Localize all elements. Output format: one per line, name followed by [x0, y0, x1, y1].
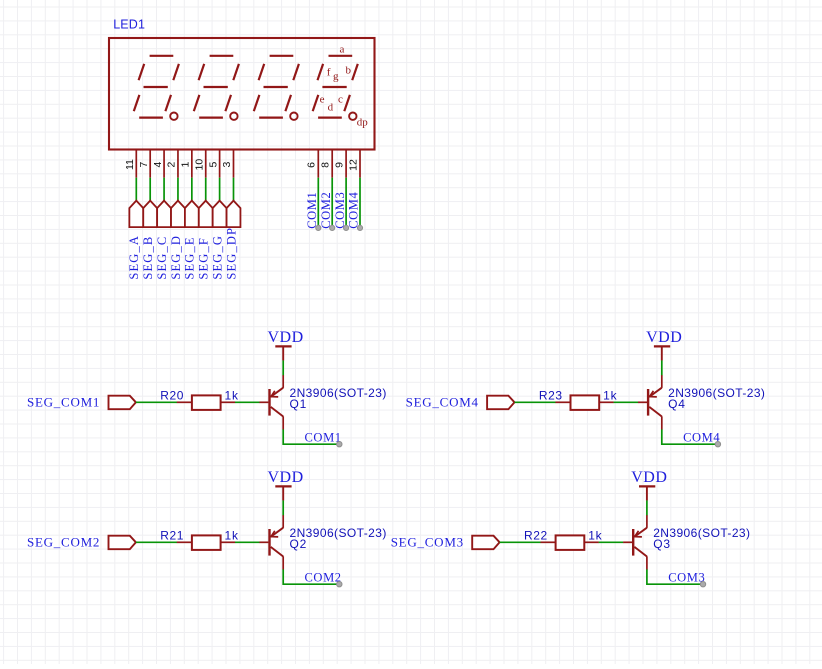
port SEG_B — [141, 201, 157, 280]
svg-text:1k: 1k — [225, 528, 239, 542]
junction dot — [715, 442, 720, 447]
svg-text:a: a — [339, 43, 344, 55]
pin 12 — [347, 149, 360, 177]
svg-text:COM4: COM4 — [683, 430, 720, 444]
svg-text:R21: R21 — [160, 528, 184, 542]
wire — [345, 178, 347, 228]
wire — [235, 541, 260, 543]
svg-text:8: 8 — [320, 162, 332, 168]
svg-text:f: f — [327, 67, 331, 79]
svg-text:g: g — [333, 71, 339, 83]
svg-text:c: c — [338, 94, 343, 106]
svg-text:SEG_F: SEG_F — [197, 237, 211, 280]
wire — [191, 178, 193, 201]
svg-text:SEG_DP: SEG_DP — [224, 227, 238, 280]
wire — [646, 500, 648, 515]
svg-text:COM2: COM2 — [319, 192, 333, 229]
pin 6 — [306, 149, 319, 177]
wire — [282, 500, 284, 515]
port SEG_DP — [224, 201, 240, 280]
pin 2 — [166, 149, 178, 177]
svg-text:dp: dp — [357, 117, 369, 129]
wire — [317, 178, 319, 228]
wire — [359, 178, 361, 228]
svg-text:1k: 1k — [225, 388, 239, 402]
transistor Q4 — [638, 375, 662, 430]
svg-text:SEG_COM4: SEG_COM4 — [406, 394, 479, 409]
wire — [135, 178, 137, 201]
junction dot — [316, 225, 321, 230]
wire — [235, 401, 260, 403]
svg-text:6: 6 — [306, 162, 318, 168]
wire — [283, 569, 339, 584]
svg-text:5: 5 — [207, 162, 219, 168]
svg-text:SEG_B: SEG_B — [141, 236, 155, 280]
wire — [205, 178, 207, 201]
port SEG_COM1 — [27, 394, 136, 409]
svg-text:SEG_D: SEG_D — [169, 235, 183, 280]
svg-text:2N3906(SOT-23): 2N3906(SOT-23) — [290, 386, 387, 400]
junction dot — [337, 442, 342, 447]
svg-text:e: e — [320, 94, 325, 106]
power VDD — [268, 469, 304, 501]
junction dot — [330, 225, 335, 230]
wire — [662, 429, 718, 444]
svg-text:1k: 1k — [588, 528, 602, 542]
svg-text:SEG_COM3: SEG_COM3 — [391, 534, 464, 549]
svg-text:2N3906(SOT-23): 2N3906(SOT-23) — [653, 526, 750, 540]
svg-text:COM1: COM1 — [305, 430, 342, 444]
wire — [661, 360, 663, 375]
wire — [515, 401, 556, 403]
svg-text:9: 9 — [334, 162, 346, 168]
transistor Q1 — [259, 375, 283, 430]
svg-text:R22: R22 — [524, 528, 548, 542]
port SEG_G — [210, 201, 226, 280]
pin 10 — [193, 149, 205, 177]
svg-text:10: 10 — [193, 159, 205, 171]
svg-text:SEG_E: SEG_E — [183, 236, 197, 279]
resistor R21 — [177, 535, 235, 550]
resistor R22 — [541, 535, 599, 550]
wire — [614, 401, 639, 403]
port SEG_COM4 — [406, 394, 515, 409]
svg-text:2N3906(SOT-23): 2N3906(SOT-23) — [290, 526, 387, 540]
svg-text:VDD: VDD — [631, 469, 667, 486]
svg-text:b: b — [346, 65, 352, 77]
svg-text:SEG_COM1: SEG_COM1 — [27, 394, 100, 409]
pin 4 — [152, 149, 164, 177]
pin 7 — [138, 149, 150, 177]
wire — [177, 178, 179, 201]
junction dot — [357, 225, 362, 230]
wire — [232, 178, 234, 201]
svg-text:VDD: VDD — [268, 469, 304, 486]
svg-text:SEG_A: SEG_A — [127, 235, 141, 280]
svg-text:1k: 1k — [603, 388, 617, 402]
pin 5 — [207, 149, 219, 177]
wire — [136, 401, 177, 403]
port SEG_C — [155, 201, 171, 280]
port SEG_E — [183, 201, 199, 280]
svg-text:2N3906(SOT-23): 2N3906(SOT-23) — [668, 386, 765, 400]
svg-text:4: 4 — [152, 162, 164, 168]
svg-text:SEG_G: SEG_G — [210, 235, 224, 280]
port SEG_COM2 — [27, 534, 136, 549]
wire — [283, 429, 339, 444]
junction dot — [700, 582, 705, 587]
pin 3 — [221, 149, 233, 177]
power VDD — [646, 329, 682, 361]
pin 11 — [124, 149, 136, 177]
wire — [599, 541, 624, 543]
svg-text:COM4: COM4 — [347, 192, 361, 229]
svg-text:SEG_C: SEG_C — [155, 236, 169, 280]
svg-text:R23: R23 — [539, 388, 563, 402]
transistor Q3 — [623, 515, 647, 570]
svg-text:LED1: LED1 — [113, 18, 145, 32]
port SEG_D — [169, 201, 185, 280]
svg-text:7: 7 — [138, 162, 150, 168]
wire — [500, 541, 541, 543]
port SEG_F — [197, 201, 213, 280]
resistor R20 — [177, 395, 235, 410]
power VDD — [631, 469, 667, 501]
svg-text:R20: R20 — [160, 388, 184, 402]
pin 1 — [180, 149, 192, 177]
wire — [331, 178, 333, 228]
display LED1 — [109, 38, 375, 150]
pin 8 — [320, 149, 333, 177]
wire — [149, 178, 151, 201]
pin 9 — [334, 149, 347, 177]
svg-text:COM3: COM3 — [668, 570, 705, 584]
wire — [647, 569, 703, 584]
svg-text:3: 3 — [221, 162, 233, 168]
wire — [136, 541, 177, 543]
svg-text:12: 12 — [347, 159, 359, 171]
wire — [282, 360, 284, 375]
svg-text:COM3: COM3 — [333, 192, 347, 229]
svg-text:VDD: VDD — [268, 329, 304, 346]
wire — [219, 178, 221, 201]
svg-text:1: 1 — [180, 162, 192, 168]
svg-text:11: 11 — [124, 159, 136, 170]
svg-text:COM1: COM1 — [305, 192, 319, 229]
power VDD — [268, 329, 304, 361]
junction dot — [337, 582, 342, 587]
svg-text:SEG_COM2: SEG_COM2 — [27, 534, 100, 549]
port SEG_A — [127, 201, 143, 280]
wire — [163, 178, 165, 201]
resistor R23 — [555, 395, 613, 410]
junction dot — [344, 225, 349, 230]
svg-text:d: d — [328, 102, 334, 114]
svg-text:VDD: VDD — [646, 329, 682, 346]
svg-text:2: 2 — [166, 162, 178, 168]
transistor Q2 — [259, 515, 283, 570]
port SEG_COM3 — [391, 534, 500, 549]
svg-text:COM2: COM2 — [305, 570, 342, 584]
